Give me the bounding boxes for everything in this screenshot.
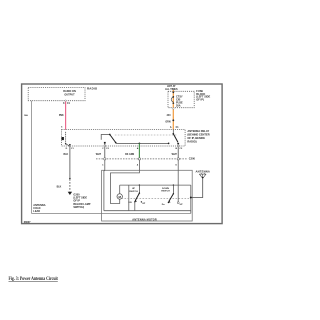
svg-text:DN: DN xyxy=(128,202,132,204)
relay switch arm right xyxy=(173,134,178,143)
svg-text:C1: C1 xyxy=(67,103,71,105)
mechanical linkage dashed xyxy=(122,198,191,200)
svg-text:DK GRN: DK GRN xyxy=(125,154,134,156)
label RADIO ON OUTPUT xyxy=(63,90,76,96)
motor M1 xyxy=(117,194,122,199)
svg-text:UP: UP xyxy=(180,204,184,206)
label FUSE BLOCK (LEFT SIDE OF IP) xyxy=(196,89,210,101)
node DN contact xyxy=(134,201,135,202)
svg-text:C: C xyxy=(102,165,104,167)
wire BLK coil to ground xyxy=(69,146,71,191)
relay fixed contact left (square) xyxy=(104,142,106,144)
connector circle mid xyxy=(138,158,140,160)
svg-text:C: C xyxy=(102,148,104,150)
svg-text:OUTPUT: OUTPUT xyxy=(64,94,75,97)
down switch arm xyxy=(169,194,174,202)
relay common rail xyxy=(116,142,169,144)
down switch pivot stem xyxy=(172,185,174,194)
relay switch arm left xyxy=(110,135,116,144)
label HOT AT ALL TIMES xyxy=(165,85,178,91)
svg-text:C1: C1 xyxy=(176,127,180,129)
svg-text:ANTENNA RELAY: ANTENNA RELAY xyxy=(187,129,209,133)
svg-text:A: A xyxy=(137,147,139,150)
node right pivot xyxy=(172,133,174,135)
connector circle left xyxy=(104,158,106,160)
relay right vertical from pin A xyxy=(172,130,174,134)
svg-text:RADIO: RADIO xyxy=(87,87,98,91)
svg-text:LEAD: LEAD xyxy=(33,210,40,213)
label ANTENNA COAX LEAD xyxy=(33,204,45,213)
node antenna junction xyxy=(190,197,192,199)
svg-text:8: 8 xyxy=(63,103,65,105)
svg-text:B: B xyxy=(176,148,178,150)
wire WHT into motor box down left side xyxy=(103,160,106,211)
up switch arm xyxy=(135,193,139,201)
svg-text:UP: UP xyxy=(132,188,136,190)
svg-text:C200: C200 xyxy=(189,157,196,161)
ground arrow G200 xyxy=(68,192,72,195)
label G200 (LEFT SIDE OF IP BELOW LAMP SWITCH) xyxy=(73,193,90,209)
svg-text:68067: 68067 xyxy=(24,221,31,224)
contact circle UP (down switch) xyxy=(177,202,179,204)
wire WHT relay to C200 right xyxy=(177,147,179,158)
wire rail to switches xyxy=(120,184,191,186)
label DOWN SWITCH xyxy=(161,188,170,193)
wire PNK radio to relay xyxy=(65,102,67,130)
wire WHT relay to C200 left xyxy=(104,147,106,158)
svg-text:RADIO): RADIO) xyxy=(187,139,196,143)
svg-text:18A: 18A xyxy=(24,114,28,117)
wire switch housing left edge xyxy=(128,185,130,211)
label UP SWITCH xyxy=(129,188,138,193)
svg-text:Dn: Dn xyxy=(162,204,166,206)
svg-text:ANTENNA: ANTENNA xyxy=(196,169,211,173)
radio U1 (dashed box) xyxy=(28,88,85,101)
node rail end xyxy=(168,143,170,145)
node Dn contact xyxy=(168,202,169,203)
node battery feed dot xyxy=(172,91,174,93)
node down switch pivot xyxy=(173,193,174,194)
svg-text:DOWN: DOWN xyxy=(162,188,169,190)
wire ORN fuse feed xyxy=(172,90,174,130)
antenna motor box xyxy=(102,170,193,221)
svg-text:C2: C2 xyxy=(106,148,110,150)
svg-text:WHT: WHT xyxy=(96,154,102,156)
svg-text:C1: C1 xyxy=(71,148,75,150)
wire bottom run to switches xyxy=(104,210,191,212)
wire green continuation into motor xyxy=(111,160,140,203)
down switch arm arrowhead xyxy=(168,201,171,203)
svg-text:OF IP): OF IP) xyxy=(196,97,204,101)
wire motor top stem xyxy=(119,185,121,194)
up switch arm arrowhead xyxy=(134,200,137,202)
svg-text:A: A xyxy=(137,164,139,167)
pin label B C2 (relay bottom right) xyxy=(176,148,183,150)
connector C200 (dashed line) xyxy=(96,158,187,160)
connector circle right xyxy=(177,158,179,160)
svg-text:PNK: PNK xyxy=(59,115,64,117)
pin A C1 (relay top) xyxy=(170,126,179,129)
node rail junction green xyxy=(139,143,141,145)
svg-text:BLK: BLK xyxy=(57,187,62,189)
label CTSY C/B FUSE 20A xyxy=(176,95,183,107)
node arm tip xyxy=(115,142,117,144)
svg-text:(BEHIND CENTER: (BEHIND CENTER xyxy=(187,132,209,136)
relay coil xyxy=(62,132,71,146)
svg-text:ALL TIMES: ALL TIMES xyxy=(165,88,178,91)
svg-text:WHT: WHT xyxy=(172,154,178,156)
node splice on ORN xyxy=(172,119,174,121)
border frame xyxy=(22,84,223,224)
wire DN contact to bottom xyxy=(134,202,136,211)
pin B C1 (relay coil top) xyxy=(61,126,63,128)
svg-text:ORN: ORN xyxy=(165,121,170,123)
node rail joint right xyxy=(173,184,174,185)
svg-text:A: A xyxy=(170,126,172,129)
svg-text:6: 6 xyxy=(61,126,63,128)
node pivot dot xyxy=(109,134,111,136)
svg-text:240: 240 xyxy=(167,114,172,117)
relay linkage (dashed) xyxy=(115,134,177,136)
svg-text:D: D xyxy=(66,148,68,150)
node up switch pivot xyxy=(139,192,140,193)
circuit breaker CTSY C/B 20A xyxy=(171,96,174,104)
pin circle right xyxy=(177,145,179,147)
wire DK GRN relay to C200 xyxy=(138,143,140,157)
svg-text:C2: C2 xyxy=(179,148,183,150)
label ANTENNA RELAY (BEHIND CENTER OF IP, BESIDE RADIO) xyxy=(187,129,209,144)
node UP contact xyxy=(141,201,142,202)
pin labels D C1 (coil bottom) xyxy=(66,148,75,150)
svg-text:ANTENNA MOTOR: ANTENNA MOTOR xyxy=(132,219,157,222)
svg-text:SWITCH: SWITCH xyxy=(129,191,138,193)
pin circle fuse box bottom xyxy=(173,108,175,110)
antenna coax lead wire xyxy=(32,101,191,214)
antenna mast symbol xyxy=(199,173,206,179)
svg-text:OF IP, BESIDE: OF IP, BESIDE xyxy=(187,136,205,140)
svg-text:UP: UP xyxy=(142,203,146,205)
relay fixed contact right (square) xyxy=(177,143,179,144)
fuse block (dashed box, left side of IP) xyxy=(168,91,194,107)
relay left contact feed L xyxy=(101,135,110,140)
svg-text:20A: 20A xyxy=(176,105,181,108)
wire WHT to UP contact xyxy=(177,160,179,202)
svg-text:SWITCH): SWITCH) xyxy=(73,206,84,209)
up switch pivot stem xyxy=(138,185,140,193)
svg-text:D: D xyxy=(176,165,178,167)
node rail joint left xyxy=(139,184,140,185)
svg-text:BLK: BLK xyxy=(63,154,68,156)
svg-text:SWITCH: SWITCH xyxy=(161,191,170,193)
pin circle left xyxy=(104,145,106,147)
antenna relay K1 (dashed box) xyxy=(62,130,186,147)
svg-text:Fig. 3: Power Antenna Circuit: Fig. 3: Power Antenna Circuit xyxy=(9,277,59,282)
pin stub left xyxy=(104,144,106,146)
wire switch housing right edge xyxy=(190,185,192,213)
wire antenna lead xyxy=(191,179,203,198)
pin 8 C1 (radio) xyxy=(63,100,71,105)
pin label C C2 (relay bottom left) xyxy=(102,148,109,150)
